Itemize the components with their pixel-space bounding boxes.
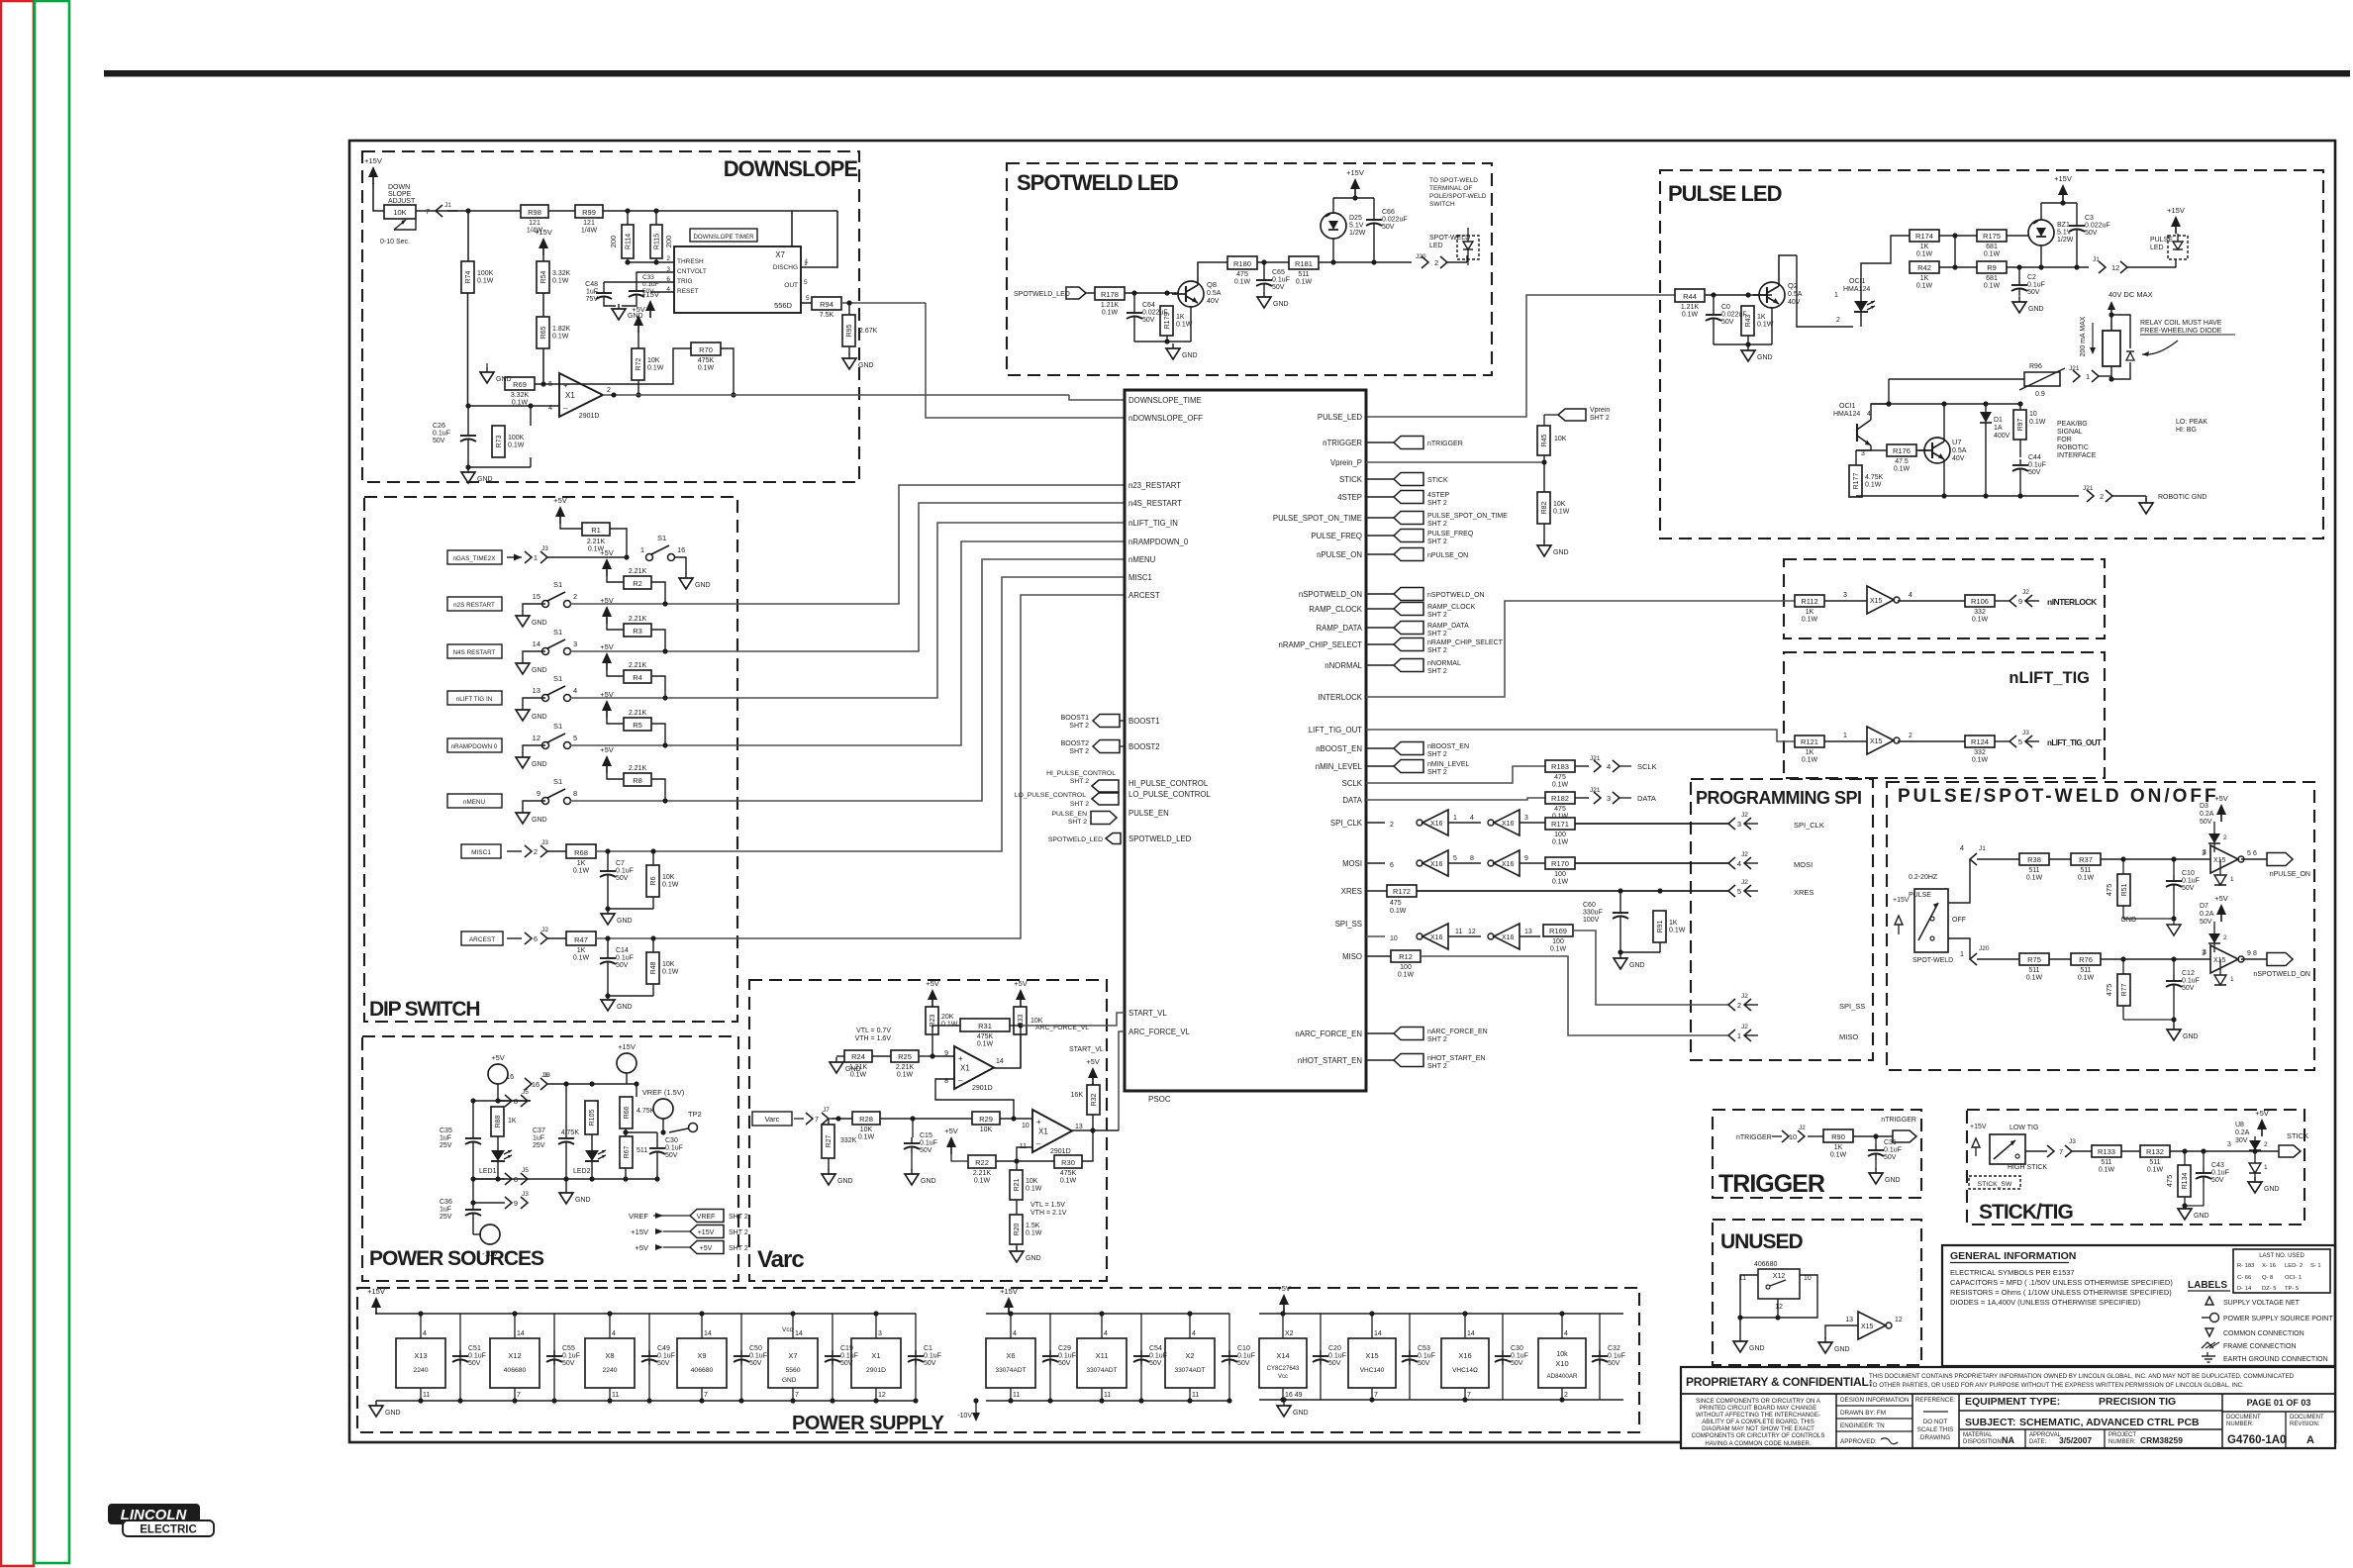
svg-text:R132: R132 xyxy=(2146,1147,2164,1156)
wire X7 discharge to top xyxy=(801,211,837,267)
resistor R115 xyxy=(650,225,673,258)
net label ARCEST xyxy=(461,931,503,945)
text resistors note xyxy=(1950,1288,2172,1297)
PSOC pin SPI_SS xyxy=(1335,920,1362,929)
capacitor C64 xyxy=(1127,293,1168,324)
svg-text:0.1W: 0.1W xyxy=(698,365,715,372)
dip switch row nLIFT TIG IN with resistor R4 xyxy=(447,642,737,721)
svg-text:R- 183: R- 183 xyxy=(2237,1263,2254,1269)
svg-text:681: 681 xyxy=(1986,244,1998,250)
text TO SPOT-WELD TERMINAL xyxy=(1429,177,1487,208)
svg-text:1: 1 xyxy=(1834,292,1838,299)
flag nPULSE_ON xyxy=(2267,853,2310,879)
svg-text:R54: R54 xyxy=(540,270,547,283)
svg-text:100: 100 xyxy=(1554,871,1566,878)
svg-text:0.1uF: 0.1uF xyxy=(468,1353,486,1360)
svg-text:TO SPOT-WELD: TO SPOT-WELD xyxy=(1429,177,1478,184)
svg-text:DRAWN BY: FM: DRAWN BY: FM xyxy=(1840,1410,1886,1417)
svg-text:ARC_FORCE_VL: ARC_FORCE_VL xyxy=(1035,1025,1089,1031)
svg-text:GENERAL INFORMATION: GENERAL INFORMATION xyxy=(1950,1250,2076,1262)
svg-text:14: 14 xyxy=(996,1058,1004,1065)
selector switch stick/tig xyxy=(1990,1134,2025,1164)
svg-text:+5V: +5V xyxy=(600,642,614,651)
svg-text:0.2-20HZ: 0.2-20HZ xyxy=(1909,874,1938,881)
wire ARC_FORCE_VL xyxy=(1035,1025,1125,1130)
wire xyxy=(547,1081,639,1086)
wire xyxy=(2049,858,2071,860)
svg-text:TP2: TP2 xyxy=(688,1110,702,1119)
svg-text:VTL = 1.5V: VTL = 1.5V xyxy=(1030,1202,1065,1209)
power +5V xyxy=(926,979,939,1007)
svg-text:0.1W: 0.1W xyxy=(1550,946,1567,953)
svg-text:+5V: +5V xyxy=(1086,1057,1100,1066)
svg-text:GND: GND xyxy=(575,1197,591,1204)
svg-text:nMENU: nMENU xyxy=(463,799,485,806)
svg-text:SPOTWELD_LED: SPOTWELD_LED xyxy=(1048,836,1103,843)
svg-text:DIP SWITCH: DIP SWITCH xyxy=(369,998,479,1021)
svg-text:+5V: +5V xyxy=(700,1245,713,1252)
svg-text:Q8: Q8 xyxy=(1207,280,1217,289)
svg-text:PULSE_FREQ: PULSE_FREQ xyxy=(1427,531,1474,538)
svg-text:2: 2 xyxy=(2264,1141,2268,1148)
LED1 xyxy=(479,1150,512,1175)
resistor R66 xyxy=(620,1097,655,1128)
wire xyxy=(542,255,544,317)
op-amp X1 varc lower xyxy=(1020,1110,1083,1155)
svg-text:X8: X8 xyxy=(605,1351,614,1360)
svg-text:R29: R29 xyxy=(979,1115,993,1124)
wire xyxy=(1366,890,1387,892)
svg-text:MATERIAL: MATERIAL xyxy=(1963,1432,1993,1438)
svg-text:nRAMPDOWN 0: nRAMPDOWN 0 xyxy=(451,743,498,750)
svg-text:R77: R77 xyxy=(2121,983,2128,996)
svg-text:0.1uF: 0.1uF xyxy=(657,1353,675,1360)
svg-text:X16: X16 xyxy=(1502,861,1515,868)
wire xyxy=(470,1084,547,1104)
label symbol power supply source point xyxy=(2202,1314,2333,1323)
text LABELS xyxy=(2188,1280,2230,1291)
svg-text:STICK: STICK xyxy=(1427,477,1448,484)
svg-text:5: 5 xyxy=(548,381,552,388)
svg-text:0.1W: 0.1W xyxy=(2147,1167,2164,1174)
svg-text:50V: 50V xyxy=(1142,317,1155,324)
wire xyxy=(2170,1141,2232,1154)
svg-text:X2: X2 xyxy=(1185,1351,1194,1360)
svg-text:R42: R42 xyxy=(1917,263,1931,272)
svg-text:100: 100 xyxy=(1552,938,1564,945)
wire R70 feedback xyxy=(559,348,736,398)
text DOWN SLOPE ADJUST xyxy=(388,184,416,205)
resistor R179 xyxy=(1160,306,1193,336)
ground xyxy=(612,304,643,320)
svg-text:0.1W: 0.1W xyxy=(552,334,569,341)
power supply IC X10 xyxy=(1538,1311,1600,1402)
svg-text:X15: X15 xyxy=(2213,857,2226,864)
svg-text:50V: 50V xyxy=(562,1360,575,1367)
svg-text:SHT 2: SHT 2 xyxy=(1427,539,1447,545)
svg-text:556D: 556D xyxy=(774,301,793,310)
svg-text:ROBOTIC: ROBOTIC xyxy=(2057,444,2089,451)
wire xyxy=(467,211,470,406)
svg-text:R24: R24 xyxy=(851,1052,865,1061)
svg-text:R51: R51 xyxy=(2121,883,2128,896)
svg-text:MISC1: MISC1 xyxy=(471,849,491,856)
svg-text:START_VL: START_VL xyxy=(1128,1009,1167,1018)
connector J21 pin 2 xyxy=(2083,485,2112,502)
svg-text:INTERFACE: INTERFACE xyxy=(2057,452,2097,459)
svg-text:X14: X14 xyxy=(1276,1351,1289,1360)
svg-text:X16: X16 xyxy=(1502,821,1515,828)
resistor R98 xyxy=(521,205,548,235)
svg-text:47.5: 47.5 xyxy=(1895,458,1909,465)
connector J3 pin 5 nLIFT_TIG_OUT xyxy=(2010,730,2102,747)
PSOC pin n23_RESTART xyxy=(1128,481,1181,490)
svg-text:ELECTRICAL SYMBOLS PER E1537: ELECTRICAL SYMBOLS PER E1537 xyxy=(1950,1268,2075,1277)
svg-text:0.5A: 0.5A xyxy=(1952,447,1967,454)
power supply IC X16 xyxy=(1441,1311,1503,1402)
resistor R29 xyxy=(972,1112,1000,1133)
svg-text:9: 9 xyxy=(2247,950,2251,957)
svg-text:11: 11 xyxy=(423,1392,430,1399)
connector J7 pin 7 xyxy=(794,1107,830,1125)
svg-text:7: 7 xyxy=(2059,1147,2063,1156)
svg-text:7: 7 xyxy=(795,1392,799,1399)
resistor R112 xyxy=(1795,595,1824,624)
wire LIFT_TIG_OUT xyxy=(1366,730,1795,741)
PSOC pin RAMP_DATA xyxy=(1317,624,1363,633)
svg-text:SCLK: SCLK xyxy=(1637,762,1657,771)
svg-text:0-10 Sec.: 0-10 Sec. xyxy=(380,239,410,245)
wire xyxy=(841,300,926,305)
svg-text:R37: R37 xyxy=(2079,855,2093,864)
svg-text:X15: X15 xyxy=(1861,1323,1874,1330)
svg-text:475: 475 xyxy=(2105,884,2113,897)
svg-text:X16: X16 xyxy=(1430,861,1443,868)
svg-text:DATA: DATA xyxy=(1342,796,1362,805)
svg-text:0.1uF: 0.1uF xyxy=(1608,1353,1625,1360)
ground xyxy=(1818,1337,1850,1353)
svg-text:40V: 40V xyxy=(1788,299,1801,306)
svg-text:X15: X15 xyxy=(1870,738,1883,745)
svg-text:R22: R22 xyxy=(975,1158,989,1167)
svg-text:+15V: +15V xyxy=(631,1227,648,1236)
svg-text:3: 3 xyxy=(1861,450,1865,457)
PSOC pin LIFT_TIG_OUT xyxy=(1309,726,1362,735)
text nTRIGGER out xyxy=(1881,1117,1916,1124)
pulse LED symbol xyxy=(2168,234,2188,259)
wire xyxy=(470,1200,481,1234)
svg-text:TO OTHER PARTIES, OR USED FOR: TO OTHER PARTIES, OR USED FOR ANY PURPOS… xyxy=(1869,1382,2244,1389)
wire xyxy=(605,938,653,999)
svg-text:X10: X10 xyxy=(1555,1359,1568,1368)
capacitor C26 xyxy=(433,406,476,445)
svg-text:+5V: +5V xyxy=(491,1053,505,1062)
svg-text:SPOTWELD_LED: SPOTWELD_LED xyxy=(1128,834,1192,843)
svg-text:4: 4 xyxy=(1960,843,1964,852)
svg-text:+15V: +15V xyxy=(1893,897,1910,904)
wire gnd rail xyxy=(376,1400,916,1402)
resistor R170 xyxy=(1545,857,1575,886)
wire xyxy=(547,937,566,939)
svg-text:4STEP: 4STEP xyxy=(1337,493,1362,502)
svg-text:C64: C64 xyxy=(1142,302,1155,309)
svg-text:2: 2 xyxy=(534,847,538,856)
PSOC pin SPI_CLK xyxy=(1330,819,1363,828)
svg-text:SPOTWELD_LED: SPOTWELD_LED xyxy=(1014,291,1070,298)
svg-text:J3: J3 xyxy=(2022,730,2029,736)
title block v1 xyxy=(1835,1394,1837,1448)
svg-text:0.1W: 0.1W xyxy=(1757,322,1774,329)
svg-text:DRAWING: DRAWING xyxy=(1920,1434,1950,1441)
svg-text:nTRIGGER: nTRIGGER xyxy=(1736,1134,1772,1141)
svg-text:475: 475 xyxy=(1390,900,1402,907)
svg-text:2.21K: 2.21K xyxy=(629,765,647,772)
svg-text:0.1W: 0.1W xyxy=(1984,283,2001,290)
svg-text:50V: 50V xyxy=(924,1360,936,1367)
PSOC pin 4STEP xyxy=(1337,493,1362,502)
svg-text:1uF: 1uF xyxy=(440,1135,451,1142)
svg-text:J2: J2 xyxy=(1741,1024,1748,1030)
svg-text:3: 3 xyxy=(878,1330,882,1337)
svg-text:511: 511 xyxy=(2149,1159,2160,1166)
IC X7 Vcc GND note xyxy=(782,1326,797,1384)
svg-text:S1: S1 xyxy=(553,674,562,683)
resistor R31 xyxy=(960,1019,1010,1048)
svg-text:J3: J3 xyxy=(522,1191,529,1198)
svg-text:R3: R3 xyxy=(633,627,642,636)
flag nTRIGGER xyxy=(1893,1130,1916,1142)
resistor R172 xyxy=(1387,885,1417,915)
power supply IC X15 xyxy=(1348,1311,1410,1402)
power supply IC X14 xyxy=(1259,1311,1321,1402)
svg-text:0.1W: 0.1W xyxy=(2099,1167,2115,1174)
wire xyxy=(2241,850,2267,859)
flag SPOTWELD_LED at pin xyxy=(1048,833,1121,844)
wire xyxy=(935,1079,1014,1119)
svg-text:RAMP_DATA: RAMP_DATA xyxy=(1427,623,1469,630)
svg-text:200: 200 xyxy=(609,236,618,248)
PSOC pin INTERLOCK xyxy=(1318,693,1362,702)
capacitor C1 xyxy=(908,1345,941,1404)
svg-text:0.1W: 0.1W xyxy=(573,868,590,875)
inverter X15 unused xyxy=(1845,1312,1903,1339)
svg-text:R66: R66 xyxy=(624,1106,631,1119)
wire xyxy=(2121,1150,2140,1152)
capacitor C12 xyxy=(2166,959,2200,992)
flag STICK xyxy=(1366,473,1448,486)
text capacitors note xyxy=(1950,1278,2173,1287)
svg-text:J1: J1 xyxy=(1979,845,1986,852)
svg-text:A: A xyxy=(2306,1434,2314,1446)
flag nARC_FORCE_EN xyxy=(1366,1028,1488,1044)
svg-text:RELAY COIL MUST HAVE: RELAY COIL MUST HAVE xyxy=(2140,320,2222,327)
svg-text:1: 1 xyxy=(2264,1164,2268,1171)
flag VREF SHT 2 xyxy=(629,1210,748,1223)
top rule bar xyxy=(104,70,2350,77)
wire INTERLOCK xyxy=(1366,601,1795,697)
PSOC pin PULSE_LED xyxy=(1318,413,1362,422)
svg-text:nPULSE_ON: nPULSE_ON xyxy=(1317,550,1362,559)
svg-text:0.1uF: 0.1uF xyxy=(1418,1353,1435,1360)
resistor R20 xyxy=(1010,1215,1042,1244)
svg-text:R183: R183 xyxy=(1551,762,1569,771)
svg-text:J3: J3 xyxy=(2069,1138,2076,1145)
svg-text:R171: R171 xyxy=(1551,820,1569,829)
svg-text:100: 100 xyxy=(1400,964,1412,971)
svg-text:11: 11 xyxy=(612,1392,619,1399)
svg-text:ADJUST: ADJUST xyxy=(388,198,416,205)
power +15V xyxy=(2054,174,2072,203)
PSOC pin STICK xyxy=(1339,475,1363,484)
svg-text:DIODES = 1A,400V (UNLESS: DIODES = 1A,400V (UNLESS OTHERWISE SPECI… xyxy=(1950,1298,2141,1307)
svg-text:nSPOTWELD_ON: nSPOTWELD_ON xyxy=(1427,592,1485,599)
svg-text:CNTVOLT: CNTVOLT xyxy=(677,268,707,275)
svg-text:STICK: STICK xyxy=(2287,1131,2308,1140)
svg-text:75V: 75V xyxy=(586,296,599,303)
svg-text:7: 7 xyxy=(1374,1392,1378,1399)
svg-text:R4: R4 xyxy=(633,673,642,682)
svg-text:R76: R76 xyxy=(2079,955,2093,964)
svg-text:C1: C1 xyxy=(924,1345,932,1352)
svg-text:R95: R95 xyxy=(846,324,853,337)
wire xyxy=(2182,1183,2204,1209)
wire xyxy=(1948,859,1970,959)
svg-text:SHT 2: SHT 2 xyxy=(1070,778,1089,785)
power supply IC X13 xyxy=(396,1311,460,1403)
svg-text:10: 10 xyxy=(1390,935,1398,942)
capacitor C48 xyxy=(585,281,612,303)
resistor R171 xyxy=(1545,818,1575,846)
svg-text:0.1W: 0.1W xyxy=(1972,617,1989,624)
svg-text:GND: GND xyxy=(2194,1213,2209,1220)
svg-text:9: 9 xyxy=(2018,597,2022,606)
PSOC pin nMENU xyxy=(1128,555,1156,564)
PROGRAMMING SPI section box xyxy=(1691,779,1873,1060)
svg-text:HAVING A COMMON CODE NUMBER.: HAVING A COMMON CODE NUMBER. xyxy=(1705,1440,1812,1447)
svg-text:3: 3 xyxy=(1737,820,1741,829)
svg-text:R112: R112 xyxy=(1801,597,1817,606)
text proprietary small xyxy=(1869,1373,2295,1389)
svg-text:R28: R28 xyxy=(859,1115,873,1124)
connector J21 pin 1 xyxy=(2069,365,2099,382)
wire xyxy=(596,848,737,853)
svg-text:5560: 5560 xyxy=(785,1367,800,1374)
STICK/TIG section box xyxy=(1967,1110,2304,1225)
svg-text:X13: X13 xyxy=(414,1351,427,1360)
svg-text:R5: R5 xyxy=(633,721,642,730)
svg-text:332K: 332K xyxy=(840,1137,857,1144)
wire xyxy=(547,554,630,559)
wire xyxy=(1824,592,1867,601)
svg-text:J2: J2 xyxy=(1741,812,1748,819)
wire xyxy=(1853,1133,1893,1138)
PSOC pin MISO xyxy=(1342,952,1362,961)
wire rails 2 xyxy=(986,1309,1229,1401)
ground xyxy=(1010,1246,1041,1262)
svg-text:0.1uF: 0.1uF xyxy=(1884,1147,1902,1154)
inverter X16 c xyxy=(1417,850,1448,876)
svg-text:40V: 40V xyxy=(1207,298,1220,305)
wire xyxy=(836,1055,932,1057)
svg-text:Vprein_P: Vprein_P xyxy=(1330,458,1362,467)
wire SCLK xyxy=(1366,766,1545,783)
wire xyxy=(1856,445,1871,465)
svg-text:R43: R43 xyxy=(1745,314,1752,327)
svg-text:PRINTED CIRCUIT BOARD MAY CHAN: PRINTED CIRCUIT BOARD MAY CHANGE xyxy=(1700,1405,1817,1412)
capacitor C15 xyxy=(904,1119,937,1154)
resistor R21 xyxy=(1010,1161,1042,1200)
svg-text:nMIN_LEVEL: nMIN_LEVEL xyxy=(1316,762,1363,771)
resistor R48 xyxy=(646,952,679,984)
svg-text:nARC_FORCE_EN: nARC_FORCE_EN xyxy=(1295,1029,1362,1038)
svg-text:J20: J20 xyxy=(1979,945,1990,952)
svg-text:121: 121 xyxy=(583,220,595,227)
Varc section box xyxy=(749,980,1107,1281)
svg-text:10: 10 xyxy=(1804,1275,1812,1282)
svg-text:R124: R124 xyxy=(1971,737,1989,746)
wire xyxy=(2112,496,2146,501)
svg-text:GND: GND xyxy=(532,620,547,627)
resistor R32 xyxy=(1071,1085,1100,1115)
svg-text:PULSE_FREQ: PULSE_FREQ xyxy=(1311,532,1362,540)
wire xyxy=(604,301,637,306)
svg-text:C10: C10 xyxy=(2182,870,2195,877)
wire to PSOC xyxy=(737,523,1125,698)
svg-text:50V: 50V xyxy=(616,962,629,969)
svg-text:475: 475 xyxy=(2165,1175,2174,1188)
svg-text:0.1W: 0.1W xyxy=(858,1134,875,1141)
svg-text:10K: 10K xyxy=(1030,1018,1043,1025)
wire MOSI long xyxy=(1575,862,1728,864)
flag +5V SHT 2 xyxy=(635,1241,747,1254)
svg-text:+5V: +5V xyxy=(553,496,567,505)
svg-text:14: 14 xyxy=(704,1330,712,1337)
svg-text:R175: R175 xyxy=(1983,232,2001,241)
svg-text:R31: R31 xyxy=(978,1022,992,1030)
TRIGGER section box xyxy=(1713,1110,1921,1198)
nINTERLOCK section box xyxy=(1784,559,2105,638)
wire xyxy=(1520,815,1545,823)
svg-text:30V: 30V xyxy=(2235,1137,2248,1144)
wire xyxy=(1366,822,1394,829)
DIP SWITCH section box xyxy=(364,497,737,1022)
ground xyxy=(1257,290,1289,308)
svg-text:+: + xyxy=(1036,1118,1041,1127)
svg-text:12: 12 xyxy=(1775,1304,1783,1311)
wire xyxy=(2127,259,2176,267)
PSOC pin nRAMP_CHIP_SELECT xyxy=(1279,640,1363,649)
diode D7 and +5V xyxy=(2200,894,2228,952)
svg-text:6: 6 xyxy=(2253,850,2257,857)
wire xyxy=(1861,236,1910,295)
svg-text:475K: 475K xyxy=(698,357,715,364)
general information box xyxy=(1942,1245,2335,1366)
svg-text:25V: 25V xyxy=(440,1142,452,1149)
resistor R12 xyxy=(1391,950,1421,979)
svg-text:2: 2 xyxy=(1434,258,1438,267)
power +5V xyxy=(1014,979,1028,1007)
svg-text:7.5K: 7.5K xyxy=(820,312,834,319)
svg-text:5: 5 xyxy=(2247,850,2251,857)
svg-text:4: 4 xyxy=(548,405,552,412)
dip switch row N4S RESTART with resistor R3 xyxy=(447,596,737,674)
svg-text:X12: X12 xyxy=(1773,1273,1786,1280)
flag PULSE_SPOT_ON_TIME xyxy=(1366,512,1508,529)
svg-text:VTH = 1.6V: VTH = 1.6V xyxy=(855,1035,892,1042)
svg-text:1K: 1K xyxy=(577,860,586,867)
svg-text:nARC_FORCE_EN: nARC_FORCE_EN xyxy=(1427,1029,1488,1035)
svg-text:EQUIPMENT TYPE:: EQUIPMENT TYPE: xyxy=(1965,1396,2060,1408)
